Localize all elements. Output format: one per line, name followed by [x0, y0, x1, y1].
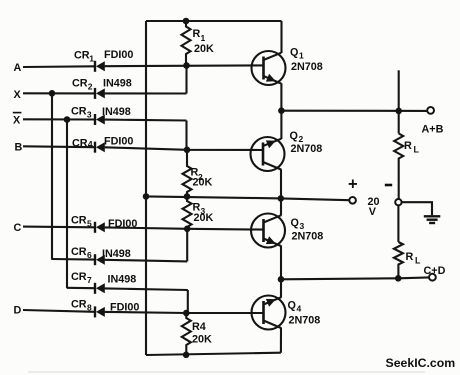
svg-text:B: B: [15, 142, 23, 154]
diode CR7: [95, 283, 105, 294]
wire CR3 to node link: [185, 121, 187, 151]
label Q2 2N708: [290, 130, 323, 155]
svg-text:2N708: 2N708: [291, 143, 323, 155]
label CR6 IN498: [71, 246, 131, 260]
svg-text:FDI00: FDI00: [104, 49, 133, 61]
node A+B load junction: [395, 108, 402, 115]
svg-text:R: R: [193, 28, 201, 40]
wire bottom rail: [146, 353, 281, 355]
label CR4 FDI00: [72, 136, 133, 150]
svg-text:R4: R4: [192, 321, 206, 333]
svg-text:X: X: [14, 89, 22, 101]
wire inline terminal to RL lower: [397, 205, 399, 242]
label R3 20K: [193, 202, 214, 225]
wire X vertical branch: [51, 93, 53, 259]
node rail-left junction: [143, 193, 150, 200]
node X-bar branch junction: [64, 116, 71, 123]
node B input wire: [23, 146, 264, 150]
svg-text:1: 1: [201, 33, 206, 43]
label RL lower: [406, 251, 422, 266]
svg-text:5: 5: [87, 219, 92, 229]
node Q1 base junction: [183, 62, 190, 69]
svg-text:6: 6: [87, 250, 92, 260]
scan artifact faint line: [28, 371, 425, 373]
svg-text:IN498: IN498: [103, 78, 132, 90]
svg-text:CR: CR: [71, 215, 87, 227]
diode CR5: [95, 222, 105, 233]
svg-text:CR: CR: [72, 138, 88, 150]
wire CR7 row: [67, 288, 188, 290]
resistor R4: [182, 313, 191, 355]
svg-text:IN498: IN498: [108, 274, 137, 286]
terminal A+B: [427, 107, 434, 114]
svg-text:Q: Q: [290, 130, 298, 142]
svg-text:+: +: [348, 175, 358, 193]
node Q3 base junction: [184, 226, 191, 233]
diode CR3: [95, 114, 105, 125]
svg-text:4: 4: [297, 304, 302, 314]
label X-bar: [13, 113, 22, 127]
terminal minus inline: [395, 199, 401, 205]
svg-text:2N708: 2N708: [289, 315, 321, 327]
svg-text:IN498: IN498: [102, 248, 131, 260]
svg-text:1: 1: [299, 51, 304, 61]
node Q3-Q4 output junction: [278, 276, 285, 283]
node Q2-Q3 rail junction: [278, 195, 285, 202]
svg-text:FDI00: FDI00: [108, 218, 137, 230]
svg-text:IN498: IN498: [102, 106, 131, 118]
node Q1-Q2 output junction: [278, 107, 285, 114]
transistor Q2: [251, 137, 285, 171]
resistor R3: [183, 197, 192, 229]
svg-text:FDI00: FDI00: [110, 302, 139, 314]
transistor Q4: [252, 296, 286, 330]
svg-text:20K: 20K: [194, 43, 214, 55]
terminal C+D: [429, 274, 436, 281]
label R2 20K: [191, 167, 213, 189]
resistor RL lower: [394, 242, 403, 278]
node R4 bottom junction: [183, 352, 190, 359]
wire CR6 row: [52, 259, 187, 261]
svg-text:L: L: [415, 256, 421, 266]
svg-text:CR: CR: [71, 271, 87, 283]
wire transistor column: [280, 21, 283, 353]
svg-text:R: R: [404, 140, 412, 152]
wire C+D row: [281, 277, 429, 279]
svg-text:7: 7: [87, 275, 92, 285]
resistor RL upper: [394, 134, 403, 200]
wire left box side: [145, 21, 147, 355]
label RL upper: [404, 140, 420, 155]
wire right stub top: [398, 70, 400, 133]
svg-text:CR: CR: [74, 50, 90, 62]
svg-text:20K: 20K: [193, 177, 213, 189]
svg-text:Q: Q: [290, 47, 298, 59]
wire center rail to +terminal: [146, 196, 349, 200]
svg-text:SeekIC.com: SeekIC.com: [386, 356, 456, 370]
node R1 top junction: [183, 18, 190, 25]
label Q1 2N708: [290, 47, 323, 74]
label CR1 FDI00: [74, 49, 133, 63]
svg-text:A+B: A+B: [422, 124, 444, 136]
wire top rail: [146, 20, 282, 22]
label Q4 2N708: [288, 300, 321, 327]
svg-text:2N708: 2N708: [292, 231, 324, 243]
label CR5 FDI00: [71, 215, 137, 231]
label CR2 IN498: [72, 78, 132, 92]
svg-text:A: A: [14, 62, 22, 74]
wire CR2 to node link: [185, 66, 187, 94]
svg-text:2: 2: [88, 82, 93, 92]
svg-text:V: V: [369, 206, 377, 218]
label R4 20K: [192, 321, 212, 346]
resistor R1: [182, 21, 191, 66]
svg-text:CR: CR: [71, 299, 87, 311]
diode CR6: [95, 254, 105, 265]
label minus: [385, 184, 392, 187]
wire CR7 to node link: [187, 290, 189, 313]
label Q3 2N708: [291, 217, 324, 243]
resistor R2: [183, 150, 192, 197]
transistor Q1: [252, 51, 286, 85]
node X branch junction: [49, 90, 56, 97]
diode CR4: [95, 142, 105, 153]
node X-bar input wire: [23, 119, 187, 120]
svg-text:20K: 20K: [192, 334, 212, 346]
diode CR8: [95, 306, 105, 317]
svg-text:D: D: [14, 305, 22, 317]
wire X-bar vertical branch: [66, 120, 68, 289]
diode CR1: [95, 61, 105, 72]
svg-text:3: 3: [300, 221, 305, 231]
node Q4 base junction: [183, 310, 190, 317]
node X input wire: [23, 92, 187, 94]
svg-text:4: 4: [88, 140, 93, 150]
svg-text:CR: CR: [71, 106, 87, 118]
diode CR2: [95, 88, 105, 99]
transistor Q3: [251, 214, 285, 248]
svg-text:R: R: [406, 251, 414, 263]
wire CR6 to node link: [186, 229, 188, 262]
label CR3 IN498: [71, 106, 131, 120]
svg-text:2N708: 2N708: [291, 61, 323, 73]
label CR8 FDI00: [71, 299, 139, 314]
svg-text:C: C: [14, 222, 22, 234]
svg-text:20K: 20K: [194, 212, 214, 224]
label R1 20K: [193, 28, 215, 55]
svg-text:C+D: C+D: [424, 265, 446, 277]
svg-text:X: X: [13, 115, 21, 127]
node C+D load junction: [395, 275, 402, 282]
svg-text:Q: Q: [288, 300, 296, 312]
wire A+B row: [281, 110, 427, 112]
svg-text:CR: CR: [71, 246, 87, 258]
node A input wire: [23, 65, 264, 67]
ground: [424, 216, 441, 223]
terminal +20V: [349, 197, 356, 204]
svg-text:Q: Q: [291, 217, 299, 229]
node R2-R3 junction: [184, 193, 191, 200]
svg-text:FDI00: FDI00: [104, 136, 133, 148]
svg-text:8: 8: [87, 303, 92, 313]
label 20 V: [368, 196, 380, 218]
label CR7 IN498: [71, 271, 136, 286]
svg-text:CR: CR: [72, 78, 88, 90]
wire ground link: [402, 202, 432, 215]
node Q2 base junction: [184, 147, 191, 154]
svg-text:3: 3: [87, 110, 92, 120]
svg-text:L: L: [414, 145, 420, 155]
node D input wire: [23, 310, 264, 313]
node C input wire: [23, 227, 264, 230]
svg-text:1: 1: [89, 54, 94, 64]
